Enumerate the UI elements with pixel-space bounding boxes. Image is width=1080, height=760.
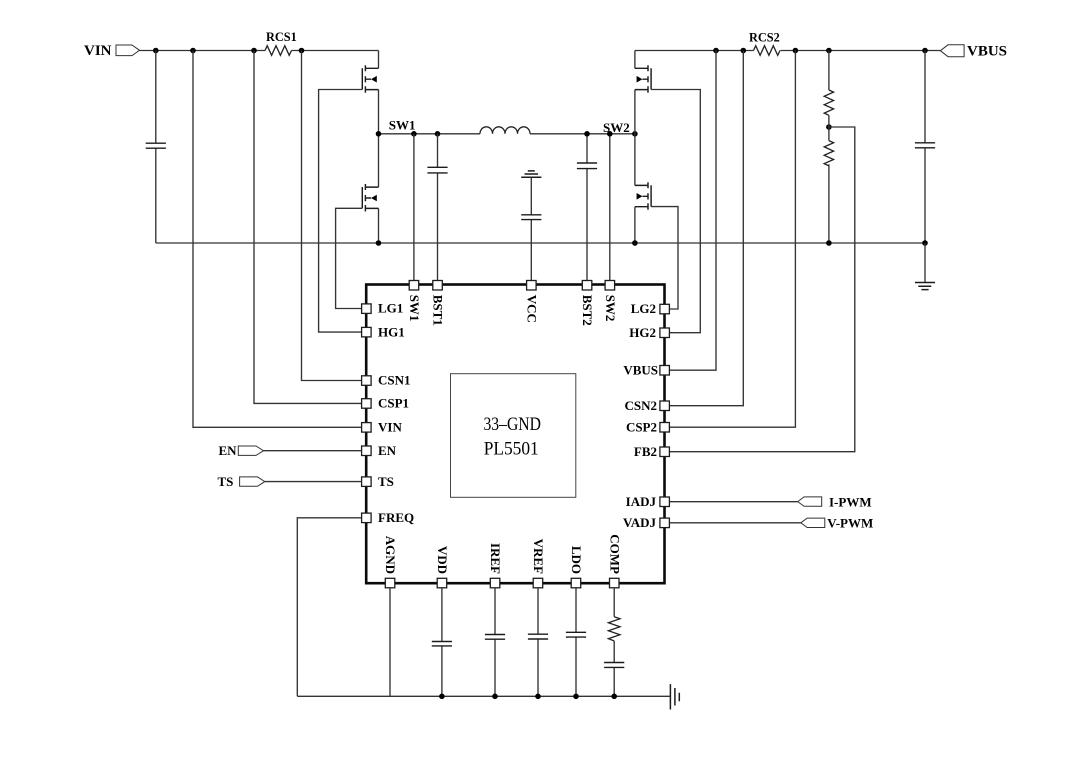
pin SW2 xyxy=(603,281,618,322)
node VDD on bottom rail xyxy=(439,694,445,700)
pin COMP xyxy=(607,534,622,588)
port I-PWM tag xyxy=(798,497,822,506)
pin AGND xyxy=(383,536,398,588)
inductor L1 xyxy=(480,127,530,134)
capacitor VDD xyxy=(432,588,452,697)
svg-text:HG2: HG2 xyxy=(629,325,656,340)
svg-text:LDO: LDO xyxy=(569,546,584,574)
svg-text:VREF: VREF xyxy=(531,539,546,574)
resistor RCS2 xyxy=(754,46,781,56)
svg-text:AGND: AGND xyxy=(383,536,398,574)
svg-text:BST2: BST2 xyxy=(580,295,595,326)
wire CSN2 vertical xyxy=(669,51,743,406)
capacitor LDO xyxy=(566,588,586,697)
wire SW1 pin vertical xyxy=(413,134,415,281)
svg-text:V-PWM: V-PWM xyxy=(827,516,873,531)
svg-text:IREF: IREF xyxy=(488,543,503,574)
wire feedback tap xyxy=(669,115,854,451)
transistor Q4 low-side right xyxy=(635,134,651,243)
svg-text:SW2: SW2 xyxy=(603,295,618,322)
capacitor IREF xyxy=(485,588,505,697)
capacitor VREF xyxy=(528,588,548,697)
node SW2 junction xyxy=(632,131,638,137)
pin VIN xyxy=(362,420,403,435)
node CSN2 junction xyxy=(741,48,747,54)
svg-text:VADJ: VADJ xyxy=(623,515,656,530)
svg-text:CSP2: CSP2 xyxy=(626,419,657,434)
svg-text:EN: EN xyxy=(219,443,238,458)
pin VREF xyxy=(531,539,546,588)
node feedback tap junction xyxy=(826,124,832,130)
node Q2 source on ground rail xyxy=(376,240,382,246)
svg-text:I-PWM: I-PWM xyxy=(829,495,872,510)
pin VCC xyxy=(524,281,539,323)
capacitor BST2 xyxy=(577,134,597,281)
svg-text:SW2: SW2 xyxy=(603,120,630,135)
ground symbol right xyxy=(915,243,935,290)
svg-text:VCC: VCC xyxy=(524,295,539,323)
wire HG1 gate loop xyxy=(319,90,363,333)
port VIN tag xyxy=(116,45,140,56)
svg-text:EN: EN xyxy=(378,443,397,458)
wire IADJ xyxy=(669,501,797,503)
node CSP1 junction xyxy=(251,48,257,54)
wire CSP2 vertical xyxy=(669,51,795,428)
wire TS xyxy=(265,481,362,483)
pin IADJ xyxy=(626,494,670,509)
wire ground rail xyxy=(156,242,925,244)
svg-text:PL5501: PL5501 xyxy=(484,440,539,460)
node SW1 pin column junction xyxy=(411,131,417,137)
pin VADJ xyxy=(623,515,669,530)
resistor RCS1 xyxy=(265,46,291,56)
svg-text:RCS2: RCS2 xyxy=(749,30,780,44)
wire LG1 gate loop xyxy=(336,208,363,308)
capacitor VCC xyxy=(521,177,541,280)
capacitor Cout xyxy=(915,51,935,244)
pin BST2 xyxy=(580,281,595,326)
svg-text:VBUS: VBUS xyxy=(623,362,658,377)
svg-text:FB2: FB2 xyxy=(634,444,657,459)
svg-text:CSP1: CSP1 xyxy=(378,396,409,411)
svg-text:FREQ: FREQ xyxy=(378,510,414,525)
wire HG2 gate loop xyxy=(651,90,700,333)
svg-text:TS: TS xyxy=(378,474,394,489)
pin EN xyxy=(362,443,397,458)
svg-text:VBUS: VBUS xyxy=(967,43,1007,59)
node IREF on bottom rail xyxy=(492,694,498,700)
transistor Q1 high-side left xyxy=(362,51,378,134)
pin CSP2 xyxy=(626,419,669,434)
node divider top junction xyxy=(826,48,832,54)
pin LG2 xyxy=(631,301,670,316)
resistor R-divider lower xyxy=(824,141,833,243)
resistor R-divider upper xyxy=(824,51,833,116)
pin CSP1 xyxy=(362,396,409,411)
node CSP2 junction xyxy=(793,48,799,54)
node SW1 junction xyxy=(376,131,382,137)
port V-PWM tag xyxy=(801,518,825,527)
port EN tag xyxy=(238,446,263,455)
svg-text:SW1: SW1 xyxy=(407,295,422,322)
transistor Q2 low-side left xyxy=(362,134,378,243)
wire CSN1 vertical xyxy=(302,51,362,381)
node Cout on ground rail xyxy=(922,240,928,246)
svg-text:VIN: VIN xyxy=(378,420,402,435)
pin TS xyxy=(362,474,394,489)
node COMP on bottom rail xyxy=(611,694,617,700)
svg-text:HG1: HG1 xyxy=(378,324,405,339)
svg-text:LG1: LG1 xyxy=(378,301,403,316)
pin LDO xyxy=(569,546,584,588)
capacitor COMP xyxy=(604,641,624,696)
pin BST1 xyxy=(431,281,446,326)
pin VDD xyxy=(435,546,450,588)
pin CSN2 xyxy=(624,398,669,413)
wire VIN rail xyxy=(140,50,379,52)
node divider bottom on ground rail xyxy=(826,240,832,246)
wire bottom ground rail xyxy=(297,695,670,697)
ground symbol bottom xyxy=(670,684,679,709)
svg-text:VDD: VDD xyxy=(435,546,450,574)
wire FREQ loop xyxy=(297,518,361,697)
pin CSN1 xyxy=(362,373,411,388)
svg-text:COMP: COMP xyxy=(607,534,622,574)
wire SW1 rail xyxy=(379,133,635,135)
node CSN1 junction xyxy=(299,48,305,54)
node LDO on bottom rail xyxy=(573,694,579,700)
pin FREQ xyxy=(362,510,415,525)
svg-text:VIN: VIN xyxy=(84,43,112,59)
wire EN xyxy=(264,450,362,452)
pin HG2 xyxy=(629,325,669,340)
node SW2 pin column junction xyxy=(607,131,613,137)
svg-text:CSN2: CSN2 xyxy=(624,398,657,413)
transistor Q3 high-side right xyxy=(635,51,651,134)
pin VBUS xyxy=(623,362,669,377)
svg-text:CSN1: CSN1 xyxy=(378,373,411,388)
wire LG2 gate loop xyxy=(651,207,678,309)
svg-text:33–GND: 33–GND xyxy=(483,415,541,435)
port VBUS tag xyxy=(940,45,964,57)
resistor COMP xyxy=(608,588,620,641)
ground symbol VCC (inverted) xyxy=(521,171,541,177)
op-amp U1 PL5501 body xyxy=(366,285,664,584)
capacitor Cin xyxy=(146,51,166,244)
wire CSP1 vertical xyxy=(254,51,362,404)
svg-text:SW1: SW1 xyxy=(389,118,416,133)
pin IREF xyxy=(488,543,503,588)
node BST2 column junction xyxy=(584,131,590,137)
node VBUS-pin junction xyxy=(713,48,719,54)
wire AGND vertical xyxy=(389,588,391,697)
pin LG1 xyxy=(362,301,404,316)
node VREF on bottom rail xyxy=(535,694,541,700)
wire VADJ xyxy=(669,522,800,524)
wire VIN-pin vertical xyxy=(193,51,362,428)
svg-text:IADJ: IADJ xyxy=(626,494,657,509)
node BST1 column junction xyxy=(435,131,441,137)
pin HG1 xyxy=(362,324,405,339)
port TS tag xyxy=(240,477,265,486)
svg-text:LG2: LG2 xyxy=(631,301,656,316)
wire VBUS pin vertical xyxy=(669,51,716,371)
wire SW2 pin vertical xyxy=(609,134,611,281)
wire VBUS rail xyxy=(635,50,941,52)
svg-text:BST1: BST1 xyxy=(431,295,446,326)
node VIN-Cin junction xyxy=(153,48,159,54)
node output cap junction xyxy=(922,48,928,54)
U1 inner die outline xyxy=(451,374,576,498)
pin SW1 xyxy=(407,281,422,322)
svg-text:RCS1: RCS1 xyxy=(266,30,297,44)
capacitor BST1 xyxy=(427,134,447,281)
svg-text:TS: TS xyxy=(218,474,234,489)
node Q4 source on ground rail xyxy=(632,240,638,246)
pin FB2 xyxy=(634,444,670,459)
node VIN-pin junction xyxy=(190,48,196,54)
